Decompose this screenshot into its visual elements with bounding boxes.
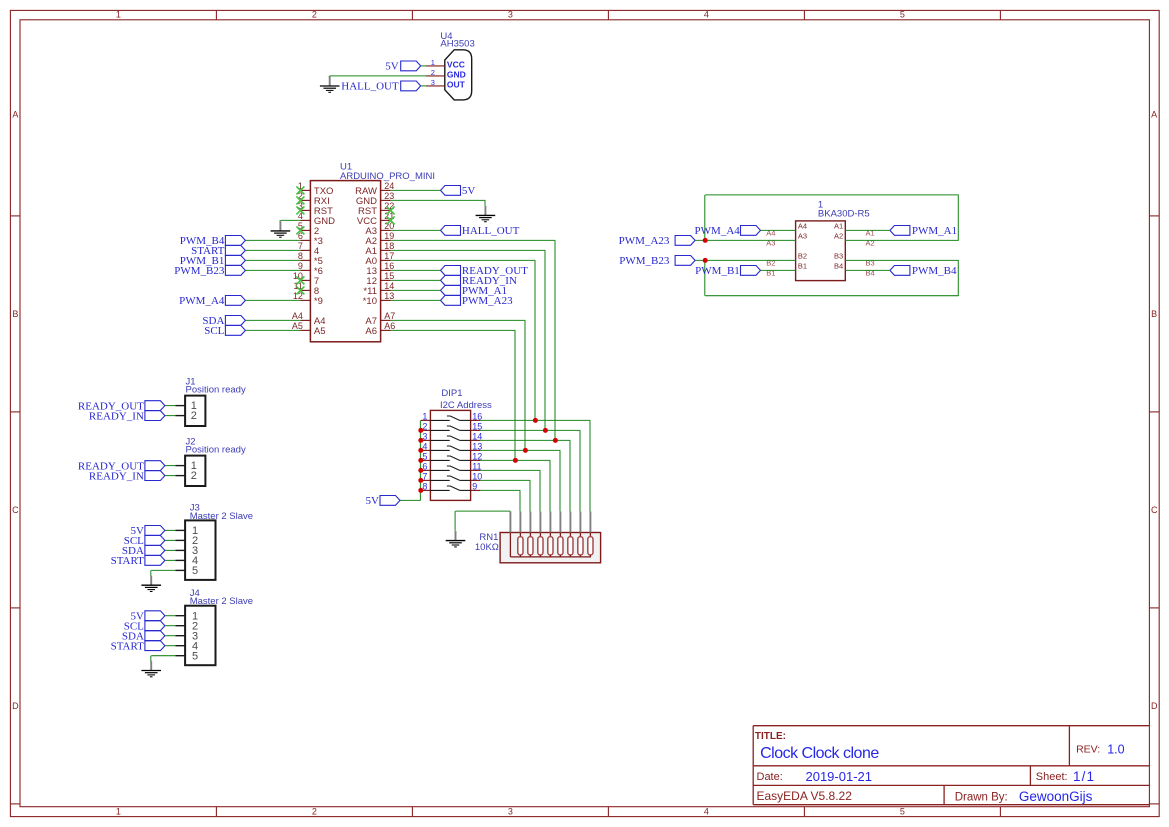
J4 pin 3 bbox=[175, 635, 185, 637]
svg-text:1/1: 1/1 bbox=[1073, 769, 1095, 784]
J3 pin 1 bbox=[175, 529, 185, 531]
svg-text:Clock Clock clone: Clock Clock clone bbox=[760, 745, 879, 762]
U1 right pin 21 (VCC) bbox=[381, 219, 391, 221]
svg-text:B4: B4 bbox=[834, 262, 843, 271]
DIP1 right pin 14 bbox=[471, 439, 481, 441]
svg-text:PWM_A4: PWM_A4 bbox=[695, 225, 741, 237]
svg-text:4: 4 bbox=[704, 807, 709, 817]
DIP1 right pin 13 bbox=[471, 449, 481, 451]
junction DIP pin 14 / A2 bbox=[553, 438, 558, 443]
DIP1 right pin 10 bbox=[471, 479, 481, 481]
svg-text:C: C bbox=[1151, 505, 1158, 515]
U1 right pin 24 (RAW) bbox=[381, 189, 391, 191]
net flag PWM_B1 at U1 left bbox=[225, 256, 245, 266]
J1 pin 1 bbox=[175, 405, 185, 407]
wire READY_OUT to J2 pin 1 bbox=[165, 465, 176, 467]
net flag PWM_A1 bbox=[890, 226, 910, 236]
DIP1 left pin 5 bbox=[421, 459, 431, 461]
net flag 5V at DIP1 bbox=[380, 496, 400, 506]
net flag START at J4 bbox=[145, 641, 165, 651]
J3 pin 4 bbox=[175, 559, 185, 561]
junction DIP pin 12 / A6 bbox=[513, 458, 518, 463]
junction DIP pin 15 / A1 bbox=[543, 428, 548, 433]
wire SDA to J3 bbox=[165, 549, 176, 551]
net flag 5V at U1 RAW bbox=[441, 186, 461, 196]
J3 pin 2 bbox=[175, 539, 185, 541]
wire DIP1 pin 16 to RN1 bbox=[480, 419, 590, 421]
wire RN1 common to ground bbox=[456, 510, 511, 512]
net flag READY_IN at J2 bbox=[145, 471, 165, 481]
svg-text:4: 4 bbox=[704, 10, 709, 20]
mcu U1 body bbox=[310, 181, 380, 342]
svg-text:*10: *10 bbox=[363, 296, 377, 307]
wire motor pin B4 to PWM_B4 bbox=[845, 269, 890, 271]
U1 left pin 1 (TXO) bbox=[300, 189, 310, 191]
wire 5V to J4 bbox=[165, 615, 176, 617]
junction DIP pin 16 / A0 bbox=[533, 418, 538, 423]
net flag PWM_B1 bbox=[741, 266, 761, 276]
junction on DIP1 common bus bbox=[418, 488, 423, 493]
net flag READY_OUT at U1 right bbox=[441, 266, 461, 276]
stepper motor body bbox=[796, 221, 846, 281]
svg-text:READY_IN: READY_IN bbox=[89, 470, 144, 482]
svg-text:11: 11 bbox=[472, 461, 481, 471]
svg-text:DIP1: DIP1 bbox=[441, 388, 462, 399]
U1 right pin A6 (A6) bbox=[381, 329, 391, 331]
svg-text:OUT: OUT bbox=[447, 80, 466, 90]
J4 pin 4 bbox=[175, 645, 185, 647]
DIP1 switch element 2 bbox=[430, 429, 449, 431]
wire SCL to J4 bbox=[165, 625, 176, 627]
wire loop B2 to B3 bbox=[704, 260, 706, 295]
J1 pin 2 bbox=[175, 415, 185, 417]
net flag SDA at U1 left bbox=[225, 316, 245, 326]
RN1 common pin stub bbox=[509, 511, 511, 532]
wire READY_IN to J2 pin 2 bbox=[165, 475, 176, 477]
RN1 resistor element 3 bbox=[539, 511, 541, 532]
DIP1 switch element 4 bbox=[430, 449, 449, 451]
connector J4 body bbox=[185, 606, 215, 666]
svg-text:I2C Address: I2C Address bbox=[440, 400, 492, 411]
DIP1 left pin 3 bbox=[421, 439, 431, 441]
no-connect cross on U1 left bbox=[296, 276, 304, 284]
U1 left pin 7 (4) bbox=[300, 249, 310, 251]
wire PWM_B23 to motor pin B2 bbox=[695, 259, 796, 261]
U4 pin 1 stub bbox=[426, 65, 445, 67]
wire U1 A1 to DIP pin 15 bbox=[391, 249, 546, 251]
svg-text:2: 2 bbox=[191, 470, 197, 482]
wire DIP1 pin 15 to RN1 bbox=[480, 429, 580, 431]
junction on DIP1 common bus bbox=[418, 458, 423, 463]
U1 left pin 9 (*6) bbox=[300, 269, 310, 271]
connector J3 body bbox=[185, 520, 215, 580]
svg-text:5: 5 bbox=[900, 807, 905, 817]
junction on DIP1 common bus bbox=[418, 428, 423, 433]
resistor network RN1 body bbox=[500, 533, 601, 563]
net flag PWM_A4 at U1 left bbox=[225, 296, 245, 306]
svg-text:PWM_A1: PWM_A1 bbox=[912, 225, 957, 237]
svg-text:14: 14 bbox=[384, 281, 394, 291]
DIP1 switch element 6 bbox=[430, 469, 449, 471]
svg-text:B1: B1 bbox=[766, 268, 775, 277]
svg-text:BKA30D-R5: BKA30D-R5 bbox=[818, 209, 870, 220]
wire PWM_B1 to U1 bbox=[245, 259, 300, 261]
svg-text:2: 2 bbox=[312, 10, 317, 20]
junction PWM_B23 / loop bbox=[703, 258, 708, 263]
RN1 resistor element 2 bbox=[529, 511, 531, 532]
svg-text:A2: A2 bbox=[834, 232, 843, 241]
svg-text:PWM_B1: PWM_B1 bbox=[695, 265, 740, 277]
connector J2 body bbox=[185, 456, 205, 486]
svg-text:1.0: 1.0 bbox=[1107, 743, 1124, 757]
RN1 resistor element 8 bbox=[589, 511, 591, 532]
svg-text:5: 5 bbox=[192, 565, 198, 577]
svg-text:A: A bbox=[1151, 109, 1157, 119]
U1 right pin A7 (A7) bbox=[381, 319, 391, 321]
wire READY_OUT to J1 pin 1 bbox=[165, 405, 176, 407]
svg-text:3: 3 bbox=[508, 807, 513, 817]
wire U1 A6 to DIP pin 12 bbox=[391, 329, 516, 331]
svg-text:A2: A2 bbox=[866, 238, 875, 247]
DIP1 left pin 2 bbox=[421, 429, 431, 431]
net flag START at U1 left bbox=[225, 246, 245, 256]
net flag SCL at J3 bbox=[145, 536, 165, 546]
wire PWM_B4 to U1 bbox=[245, 239, 300, 241]
svg-text:A5: A5 bbox=[314, 326, 326, 337]
svg-text:2: 2 bbox=[312, 807, 317, 817]
U1 right pin 20 (A3) bbox=[381, 229, 391, 231]
U1 right pin 23 (GND) bbox=[381, 199, 391, 201]
no-connect cross on U1 right bbox=[387, 216, 395, 224]
svg-text:A: A bbox=[12, 109, 18, 119]
svg-text:GewoonGijs: GewoonGijs bbox=[1019, 789, 1093, 804]
net flag READY_OUT at J2 bbox=[145, 461, 165, 471]
DIP1 right pin 15 bbox=[471, 429, 481, 431]
svg-text:A6: A6 bbox=[384, 321, 395, 331]
svg-text:PWM_A4: PWM_A4 bbox=[179, 295, 225, 307]
wire START to J4 bbox=[165, 645, 176, 647]
net flag PWM_A23 bbox=[675, 236, 695, 246]
wire PWM_A23 to motor pin A3 bbox=[695, 239, 796, 241]
svg-text:B: B bbox=[12, 309, 18, 319]
svg-text:A7: A7 bbox=[384, 311, 395, 321]
U1 left pin 3 (RST) bbox=[300, 209, 310, 211]
wire 5V to J3 bbox=[165, 529, 176, 531]
wire J4 pin 5 to ground bbox=[151, 655, 175, 657]
svg-text:1: 1 bbox=[422, 411, 427, 421]
svg-text:PWM_B23: PWM_B23 bbox=[619, 255, 670, 267]
net flag PWM_A1 at U1 right bbox=[441, 286, 461, 296]
svg-text:START: START bbox=[111, 555, 145, 567]
no-connect cross on U1 left bbox=[296, 226, 304, 234]
svg-text:1: 1 bbox=[116, 10, 121, 20]
ground at U1 pin 4 bbox=[280, 219, 300, 221]
wire U1 RAW to 5V bbox=[391, 189, 441, 191]
wire DIP1 common bus bbox=[419, 420, 421, 500]
wire PWM_A4 to U1 bbox=[245, 299, 300, 301]
ground at U4 pin 2 bbox=[328, 76, 330, 78]
dip switch DIP1 body bbox=[430, 410, 470, 500]
svg-text:Date:: Date: bbox=[757, 771, 783, 783]
DIP1 left pin 1 bbox=[421, 419, 431, 421]
svg-text:1: 1 bbox=[116, 807, 121, 817]
wire HALL_OUT to U4 pin 3 bbox=[421, 85, 427, 87]
svg-text:8: 8 bbox=[298, 251, 303, 261]
svg-text:EasyEDA V5.8.22: EasyEDA V5.8.22 bbox=[757, 789, 853, 803]
net flag PWM_B23 bbox=[675, 256, 695, 266]
wire DIP1 pin 10 to RN1 bbox=[480, 479, 530, 481]
net flag PWM_B4 at U1 left bbox=[225, 236, 245, 246]
DIP1 switch element 8 bbox=[430, 489, 449, 491]
wire U1 A2 to DIP pin 14 bbox=[391, 239, 556, 241]
net flag HALL_OUT at U4 pin 3 bbox=[401, 81, 421, 91]
svg-text:PWM_B4: PWM_B4 bbox=[912, 265, 957, 277]
svg-text:START: START bbox=[111, 641, 145, 653]
wire U1 pin 23 to ground bbox=[391, 199, 486, 201]
J4 pin 1 bbox=[175, 615, 185, 617]
svg-text:PWM_B23: PWM_B23 bbox=[174, 265, 225, 277]
junction on DIP1 common bus bbox=[418, 448, 423, 453]
DIP1 switch element 5 bbox=[430, 459, 449, 461]
svg-text:1: 1 bbox=[431, 58, 435, 67]
U1 right pin 13 (*10) bbox=[381, 299, 391, 301]
ground at J4 pin 5 bbox=[150, 661, 152, 671]
svg-text:B2: B2 bbox=[766, 258, 775, 267]
U1 right pin 17 (A0) bbox=[381, 259, 391, 261]
wire SDA to U1 bbox=[245, 319, 300, 321]
wire loop A3 to A2 bbox=[704, 195, 706, 241]
wire DIP1 pin 12 to RN1 bbox=[480, 459, 550, 461]
U1 left pin 8 (*5) bbox=[300, 259, 310, 261]
no-connect cross on U1 left bbox=[296, 286, 304, 294]
svg-text:HALL_OUT: HALL_OUT bbox=[341, 81, 399, 93]
svg-text:PWM_A23: PWM_A23 bbox=[619, 235, 670, 247]
svg-text:REV:: REV: bbox=[1076, 743, 1100, 755]
svg-text:17: 17 bbox=[384, 251, 394, 261]
svg-text:15: 15 bbox=[384, 271, 394, 281]
svg-text:5: 5 bbox=[192, 650, 198, 662]
svg-text:5V: 5V bbox=[366, 495, 380, 507]
RN1 resistor element 1 bbox=[519, 511, 521, 532]
svg-text:READY_IN: READY_IN bbox=[89, 410, 144, 422]
U1 right pin 19 (A2) bbox=[381, 239, 391, 241]
net flag START at J3 bbox=[145, 556, 165, 566]
net flag PWM_B4 bbox=[890, 266, 910, 276]
U1 left pin 10 (7) bbox=[300, 279, 310, 281]
DIP1 left pin 4 bbox=[421, 449, 431, 451]
net flag 5V at U4 pin 1 bbox=[401, 61, 421, 71]
U1 left pin 4 (GND) bbox=[300, 219, 310, 221]
svg-text:3: 3 bbox=[508, 10, 513, 20]
svg-text:A1: A1 bbox=[834, 222, 843, 231]
wire U1 A3 to HALL_OUT bbox=[391, 229, 441, 231]
svg-text:PWM_A23: PWM_A23 bbox=[462, 295, 513, 307]
junction on DIP1 common bus bbox=[418, 468, 423, 473]
U4 pin 2 stub bbox=[426, 75, 445, 77]
J3 pin 3 bbox=[175, 549, 185, 551]
U1 left pin 11 (8) bbox=[300, 289, 310, 291]
svg-text:A5: A5 bbox=[292, 321, 303, 331]
svg-text:D: D bbox=[1151, 701, 1158, 711]
net flag SCL at U1 left bbox=[225, 326, 245, 336]
connector J1 body bbox=[185, 396, 205, 426]
ground at U1 pin 23 bbox=[484, 206, 486, 216]
svg-text:Position ready: Position ready bbox=[186, 444, 246, 455]
U1 right pin 18 (A1) bbox=[381, 249, 391, 251]
net flag SCL at J4 bbox=[145, 621, 165, 631]
svg-text:C: C bbox=[12, 505, 19, 515]
svg-text:23: 23 bbox=[384, 191, 394, 201]
no-connect cross on U1 left bbox=[296, 206, 304, 214]
wire PWM_A4 to motor pin A4 bbox=[761, 229, 796, 231]
U1 right pin 22 (RST) bbox=[381, 209, 391, 211]
svg-text:B: B bbox=[1151, 309, 1157, 319]
svg-text:19: 19 bbox=[384, 231, 394, 241]
svg-text:HALL_OUT: HALL_OUT bbox=[462, 225, 520, 237]
DIP1 switch element 7 bbox=[430, 479, 449, 481]
svg-text:18: 18 bbox=[384, 241, 394, 251]
svg-text:A6: A6 bbox=[365, 326, 377, 337]
DIP1 left pin 6 bbox=[421, 469, 431, 471]
no-connect cross on U1 left bbox=[296, 186, 304, 194]
svg-text:*9: *9 bbox=[314, 296, 323, 307]
svg-text:Sheet:: Sheet: bbox=[1036, 771, 1068, 783]
junction PWM_A23 / loop bbox=[703, 238, 708, 243]
svg-text:9: 9 bbox=[472, 481, 477, 491]
svg-text:7: 7 bbox=[298, 241, 303, 251]
wire START to U1 bbox=[245, 249, 300, 251]
svg-text:24: 24 bbox=[384, 181, 394, 191]
U1 right pin 14 (*11) bbox=[381, 289, 391, 291]
RN1 resistor element 6 bbox=[569, 511, 571, 532]
svg-text:5V: 5V bbox=[385, 61, 399, 73]
svg-text:B3: B3 bbox=[834, 252, 843, 261]
net flag READY_IN at U1 right bbox=[441, 276, 461, 286]
wire SCL to J3 bbox=[165, 539, 176, 541]
wire READY_IN to J1 pin 2 bbox=[165, 415, 176, 417]
svg-text:A4: A4 bbox=[798, 222, 807, 231]
net flag SDA at J4 bbox=[145, 631, 165, 641]
junction on DIP1 common bus bbox=[418, 478, 423, 483]
wire motor pin A1 to PWM_A1 bbox=[845, 229, 890, 231]
wire PWM_B1 to motor pin B1 bbox=[761, 269, 796, 271]
net flag PWM_A23 at U1 right bbox=[441, 296, 461, 306]
svg-text:D: D bbox=[12, 701, 19, 711]
svg-text:13: 13 bbox=[384, 291, 394, 301]
J4 pin 2 bbox=[175, 625, 185, 627]
wire DIP1 pin 14 to RN1 bbox=[480, 439, 570, 441]
svg-text:A4: A4 bbox=[292, 311, 303, 321]
wire DIP1 pin 11 to RN1 bbox=[480, 469, 540, 471]
U1 left pin 12 (*9) bbox=[300, 299, 310, 301]
svg-text:3: 3 bbox=[431, 78, 435, 87]
svg-text:SCL: SCL bbox=[204, 325, 224, 337]
wire U1 to PWM_A23 bbox=[391, 299, 441, 301]
DIP1 switch element 1 bbox=[430, 419, 449, 421]
ground at J3 pin 5 bbox=[150, 576, 152, 586]
wire START to J3 bbox=[165, 559, 176, 561]
svg-text:5V: 5V bbox=[462, 185, 476, 197]
svg-text:10KΩ: 10KΩ bbox=[475, 542, 499, 553]
svg-text:A1: A1 bbox=[866, 228, 875, 237]
svg-text:TITLE:: TITLE: bbox=[755, 731, 786, 742]
title block bbox=[753, 726, 1149, 805]
net flag PWM_A4 bbox=[741, 226, 761, 236]
J3 pin 5 bbox=[175, 569, 185, 571]
J2 pin 2 bbox=[175, 475, 185, 477]
ground at RN1 common bbox=[455, 531, 457, 541]
svg-text:2: 2 bbox=[431, 68, 435, 77]
svg-text:B4: B4 bbox=[866, 268, 875, 277]
net flag 5V at J3 bbox=[145, 526, 165, 536]
RN1 resistor element 7 bbox=[579, 511, 581, 532]
DIP1 left pin 8 bbox=[421, 489, 431, 491]
svg-text:9: 9 bbox=[298, 261, 303, 271]
J4 pin 5 bbox=[175, 655, 185, 657]
DIP1 right pin 16 bbox=[471, 419, 481, 421]
net flag SDA at J3 bbox=[145, 546, 165, 556]
U1 left pin A4 (A4) bbox=[300, 319, 310, 321]
hall sensor U4 body bbox=[445, 50, 472, 100]
DIP1 right pin 11 bbox=[471, 469, 481, 471]
svg-text:2019-01-21: 2019-01-21 bbox=[806, 769, 873, 784]
U4 pin 3 stub bbox=[426, 85, 445, 87]
net flag 5V at J4 bbox=[145, 611, 165, 621]
svg-text:A4: A4 bbox=[766, 228, 775, 237]
wire DIP1 pin 13 to RN1 bbox=[480, 449, 560, 451]
wire U1 A0 to DIP pin 16 bbox=[391, 259, 536, 261]
U1 left pin 5 (2) bbox=[300, 229, 310, 231]
U1 left pin 6 (*3) bbox=[300, 239, 310, 241]
svg-text:AH3503: AH3503 bbox=[440, 39, 474, 50]
U1 right pin 16 (13) bbox=[381, 269, 391, 271]
svg-text:A3: A3 bbox=[766, 238, 775, 247]
wire 5V to U4 pin 1 bbox=[421, 65, 427, 67]
svg-text:GND: GND bbox=[447, 70, 466, 80]
RN1 resistor element 5 bbox=[559, 511, 561, 532]
wire DIP1 pin 9 to RN1 bbox=[480, 489, 520, 491]
svg-text:5: 5 bbox=[900, 10, 905, 20]
junction DIP pin 13 / A7 bbox=[523, 448, 528, 453]
RN1 resistor element 4 bbox=[549, 511, 551, 532]
net flag HALL_OUT at U1 A3 bbox=[441, 226, 461, 236]
DIP1 right pin 12 bbox=[471, 459, 481, 461]
svg-text:A3: A3 bbox=[798, 232, 807, 241]
svg-text:VCC: VCC bbox=[447, 60, 465, 70]
wire U1 to READY_IN bbox=[391, 279, 441, 281]
svg-text:B1: B1 bbox=[798, 262, 807, 271]
wire SCL to U1 bbox=[245, 329, 300, 331]
DIP1 left pin 7 bbox=[421, 479, 431, 481]
J2 pin 1 bbox=[175, 465, 185, 467]
net flag READY_OUT at J1 bbox=[145, 401, 165, 411]
DIP1 right pin 9 bbox=[471, 489, 481, 491]
svg-text:16: 16 bbox=[384, 261, 394, 271]
wire U1 to PWM_A1 bbox=[391, 289, 441, 291]
svg-text:B3: B3 bbox=[866, 258, 875, 267]
svg-text:Position ready: Position ready bbox=[186, 384, 246, 395]
wire U1 A7 to DIP pin 13 bbox=[391, 319, 526, 321]
net flag PWM_B23 at U1 left bbox=[225, 266, 245, 276]
U1 left pin A5 (A5) bbox=[300, 329, 310, 331]
wire J3 pin 5 to ground bbox=[151, 569, 175, 571]
no-connect cross on U1 left bbox=[296, 196, 304, 204]
RN1 internal common rail bbox=[509, 533, 511, 557]
wire PWM_B23 to U1 bbox=[245, 269, 300, 271]
DIP1 switch element 3 bbox=[430, 439, 449, 441]
U1 right pin 15 (12) bbox=[381, 279, 391, 281]
U1 left pin 2 (RXI) bbox=[300, 199, 310, 201]
